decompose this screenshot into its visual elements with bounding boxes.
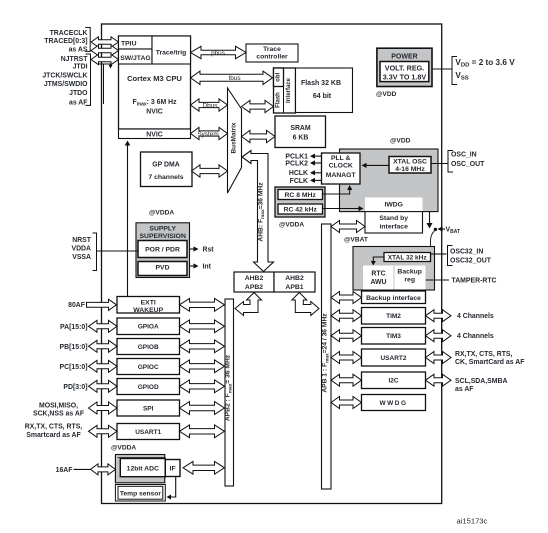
- flash memory box: [296, 68, 353, 113]
- svg-text:PA[15:0]: PA[15:0]: [60, 324, 87, 331]
- svg-text:pbus: pbus: [211, 50, 225, 57]
- rc42 wire to iwdg: [322, 208, 362, 210]
- svg-text:controller: controller: [256, 54, 288, 61]
- left jtag arrow 3: [91, 54, 119, 64]
- rc8 wire to pll: [322, 187, 350, 195]
- switch node dot: [434, 228, 437, 231]
- svg-text:IWDG: IWDG: [384, 201, 403, 208]
- backup registers box: [395, 266, 426, 290]
- POWER block: [377, 48, 432, 86]
- svg-text:RC 42 kHz: RC 42 kHz: [284, 207, 318, 214]
- svg-text:VBAT: VBAT: [446, 227, 461, 236]
- if to temp wire: [168, 477, 176, 498]
- svg-text:obl: obl: [275, 72, 281, 81]
- svg-text:4 Channels: 4 Channels: [457, 333, 494, 340]
- backup interface arrow: [331, 292, 362, 304]
- outer frame: [102, 24, 442, 504]
- svg-text:RTC: RTC: [371, 271, 385, 278]
- XTAL OSC box: [389, 157, 431, 174]
- Dbus arrow: [191, 99, 228, 111]
- wwdg left arrow: [331, 397, 362, 409]
- NVIC strip: [119, 129, 191, 139]
- svg-text:Flash: Flash: [275, 92, 281, 108]
- svg-text:reg: reg: [404, 277, 415, 284]
- svg-text:CK, SmartCard as AF: CK, SmartCard as AF: [455, 359, 524, 366]
- 12bit ADC box: [120, 459, 165, 477]
- svg-text:System: System: [197, 131, 218, 138]
- svg-text:OSC_OUT: OSC_OUT: [451, 161, 485, 168]
- gpioa left arrow: [89, 320, 118, 332]
- svg-text:GPIOC: GPIOC: [138, 364, 159, 371]
- svg-text:RX,TX, CTS, RTS,: RX,TX, CTS, RTS,: [455, 351, 513, 358]
- left jtag arrow 1: [91, 37, 119, 47]
- svg-text:VOLT. REG.: VOLT. REG.: [385, 64, 424, 73]
- Ibus arrow: [191, 71, 273, 84]
- RC oscillators container: [275, 187, 325, 217]
- exti to nvic wire: [127, 144, 129, 297]
- svg-text:PB[15:0]: PB[15:0]: [60, 344, 88, 351]
- gpioc left arrow: [89, 360, 118, 372]
- svg-text:Cortex M3 CPU: Cortex M3 CPU: [127, 74, 182, 83]
- svg-text:OSC32_IN: OSC32_IN: [450, 249, 483, 256]
- svg-text:JTDO: JTDO: [69, 90, 88, 97]
- SW/JTAG box: [119, 49, 153, 64]
- APB2 bus box: [225, 299, 234, 486]
- BusMatrix polygon: [228, 88, 242, 193]
- svg-text:Int: Int: [203, 264, 212, 271]
- svg-text:OSC_IN: OSC_IN: [451, 152, 477, 159]
- svg-text:as AS: as AS: [69, 46, 88, 53]
- svg-text:TIM3: TIM3: [386, 333, 401, 340]
- tamper wire: [426, 279, 450, 281]
- i2c left arrow: [331, 374, 362, 386]
- svg-text:PVD: PVD: [156, 265, 170, 272]
- svg-text:VSSA: VSSA: [72, 254, 91, 261]
- svg-text:64 bit: 64 bit: [313, 93, 332, 100]
- svg-text:FCLK: FCLK: [290, 178, 308, 185]
- svg-text:12bit ADC: 12bit ADC: [127, 465, 159, 472]
- svg-text:TPIU: TPIU: [121, 41, 137, 48]
- svg-text:Trace: Trace: [263, 46, 281, 53]
- VBAT wire: [439, 228, 446, 230]
- svg-text:SUPERVISION: SUPERVISION: [140, 233, 186, 240]
- RTC AWU box: [363, 266, 394, 290]
- APB1 bus box: [322, 224, 332, 489]
- usart1 left arrow: [89, 425, 118, 437]
- flash interface box: [274, 68, 296, 113]
- svg-text:AWU: AWU: [370, 279, 386, 286]
- jtag stub wire: [99, 64, 111, 66]
- svg-text:16AF: 16AF: [56, 467, 73, 474]
- backup domain gray block: [353, 247, 435, 291]
- svg-text:GPIOA: GPIOA: [138, 324, 159, 331]
- backup interface box: [362, 291, 426, 304]
- Int wire: [190, 265, 198, 267]
- USART2 box: [362, 349, 426, 366]
- svg-text:APB2: APB2: [245, 284, 263, 291]
- svg-text:SW/JTAG: SW/JTAG: [120, 55, 150, 62]
- WWDG box: [362, 395, 426, 411]
- svg-text:XTAL 32 kHz: XTAL 32 kHz: [388, 254, 428, 261]
- svg-text:Temp sensor: Temp sensor: [120, 490, 162, 497]
- svg-text:MANAGT: MANAGT: [326, 172, 357, 179]
- svg-text:GPIOD: GPIOD: [138, 384, 159, 391]
- gpiob right arrow: [180, 340, 225, 353]
- xtal osc wire to pins: [431, 163, 448, 165]
- svg-text:JTMS/SWDIO: JTMS/SWDIO: [44, 81, 88, 88]
- svg-text:Interface: Interface: [286, 77, 292, 103]
- PLL clock managt box: [322, 153, 361, 184]
- svg-text:Backup interface: Backup interface: [366, 295, 421, 302]
- svg-text:OSC32_OUT: OSC32_OUT: [450, 258, 492, 265]
- voltage regulator box: [380, 62, 429, 82]
- svg-text:4-16 MHz: 4-16 MHz: [395, 166, 425, 173]
- clock control gray block: [340, 149, 439, 212]
- SRAM box: [275, 116, 326, 148]
- 16af arrow: [91, 464, 116, 475]
- EXTI WAKEUP box: [117, 297, 180, 314]
- USART1 box: [117, 424, 180, 440]
- svg-text:TAMPER-RTC: TAMPER-RTC: [452, 278, 497, 285]
- svg-text:HCLK: HCLK: [289, 170, 308, 177]
- GPIOA box: [117, 318, 180, 335]
- AHB bus fat arrow: [242, 151, 274, 272]
- svg-text:Stand by: Stand by: [379, 215, 408, 222]
- gpioc right arrow: [180, 360, 225, 373]
- svg-text:AHB2: AHB2: [285, 275, 304, 282]
- spi right arrow: [180, 402, 225, 415]
- gpiob left arrow: [89, 340, 118, 352]
- RC 8 MHz box: [278, 190, 323, 200]
- svg-text:USART1: USART1: [135, 429, 161, 436]
- svg-text:@VDDA: @VDDA: [111, 445, 136, 452]
- svg-text:NVIC: NVIC: [146, 131, 162, 138]
- 80AF arrow: [87, 299, 117, 310]
- apb2 elbow arrow: [235, 293, 262, 316]
- TPIU box: [119, 36, 153, 49]
- svg-text:80AF: 80AF: [68, 302, 85, 309]
- svg-text:@VDD: @VDD: [390, 138, 411, 145]
- svg-text:@VDDA: @VDDA: [279, 222, 304, 229]
- svg-text:MOSI,MISO,: MOSI,MISO,: [39, 402, 78, 409]
- xtal32 to rtc wire: [373, 257, 384, 263]
- IWDG box: [365, 198, 423, 212]
- svg-text:PCLK1: PCLK1: [285, 153, 308, 160]
- svg-text:PLL &: PLL &: [331, 155, 351, 162]
- GPIOD box: [117, 379, 180, 395]
- SPI box: [117, 400, 180, 416]
- svg-text:SCL,SDA,SMBA: SCL,SDA,SMBA: [455, 378, 507, 385]
- Trace/trig box: [152, 36, 191, 64]
- spi left arrow: [89, 402, 118, 414]
- xtal to pll wire: [363, 164, 389, 166]
- svg-text:IF: IF: [170, 465, 176, 472]
- trace controller box: [246, 44, 298, 62]
- svg-text:Trace/trig: Trace/trig: [156, 50, 187, 57]
- usart2 left arrow: [331, 352, 362, 364]
- svg-text:as AF: as AF: [69, 100, 88, 107]
- svg-text:WWDG: WWDG: [379, 400, 407, 407]
- svg-text:@VDD: @VDD: [376, 91, 397, 98]
- tim3 left arrow: [331, 330, 362, 342]
- NRST wire: [97, 250, 139, 252]
- trace bracket: [85, 28, 90, 52]
- svg-text:GPIOB: GPIOB: [138, 344, 159, 351]
- Rst wire: [190, 248, 198, 250]
- svg-text:as AF: as AF: [455, 386, 474, 393]
- temp sensor box: [118, 486, 163, 499]
- svg-text:@VBAT: @VBAT: [344, 237, 368, 244]
- svg-text:4 Channels: 4 Channels: [457, 313, 494, 320]
- dma arrow: [192, 165, 228, 177]
- CPU block Cortex M3: [119, 36, 191, 129]
- xtal32 wire to pins: [431, 253, 447, 255]
- usart1 right arrow: [180, 425, 225, 438]
- svg-text:SPI: SPI: [143, 405, 154, 412]
- svg-text:6 KB: 6 KB: [293, 134, 309, 141]
- flash arrow: [242, 100, 274, 112]
- adc right arrow: [183, 461, 225, 474]
- svg-text:Ibus: Ibus: [228, 75, 240, 82]
- svg-text:RC 8 MHz: RC 8 MHz: [285, 192, 317, 199]
- pbus arrow: [191, 46, 247, 58]
- svg-text:Flash 32 KB: Flash 32 KB: [301, 80, 341, 87]
- exti right arrow: [180, 298, 225, 311]
- GPIOB box: [117, 339, 180, 355]
- supply supervision block: [136, 223, 190, 278]
- svg-text:VDDA: VDDA: [71, 245, 91, 252]
- svg-text:WAKEUP: WAKEUP: [133, 307, 163, 314]
- svg-text:BusMatrix: BusMatrix: [231, 122, 238, 153]
- sram arrow: [242, 130, 276, 142]
- svg-text:NRST: NRST: [72, 237, 92, 244]
- apb1 standby arrow: [331, 221, 365, 233]
- njtrst bracket: [86, 54, 91, 105]
- OSC bracket: [448, 151, 453, 173]
- svg-text:RX,TX, CTS, RTS,: RX,TX, CTS, RTS,: [25, 424, 83, 431]
- standby interface box: [365, 212, 423, 233]
- svg-text:SRAM: SRAM: [290, 125, 311, 132]
- TIM3 box: [362, 328, 426, 345]
- svg-text:I2C: I2C: [388, 378, 398, 385]
- obl box: [274, 68, 284, 87]
- usart2 right arrow: [426, 352, 452, 364]
- svg-text:interface: interface: [380, 223, 409, 230]
- svg-text:ai15173c: ai15173c: [457, 517, 488, 526]
- svg-text:POWER: POWER: [391, 54, 417, 61]
- svg-text:Smartcard as AF: Smartcard as AF: [26, 432, 81, 439]
- TIM2 box: [362, 308, 426, 325]
- i2c right arrow: [426, 374, 452, 386]
- clock output wires: [311, 155, 322, 157]
- AHB2 APB1 bridge box: [274, 272, 315, 292]
- svg-text:SUPPLY: SUPPLY: [149, 225, 176, 232]
- tim2 right arrow: [426, 310, 452, 322]
- svg-text:NJTRST: NJTRST: [61, 56, 89, 63]
- left jtag arrow 2: [91, 45, 119, 55]
- VDD VSS bracket: [452, 57, 457, 85]
- svg-text:APB1: APB1: [285, 284, 303, 291]
- svg-text:AHB2: AHB2: [245, 275, 264, 282]
- svg-text:TRACECLK: TRACECLK: [50, 30, 88, 37]
- nrst bracket: [93, 233, 97, 271]
- switch arm wire: [431, 231, 435, 247]
- gpiod left arrow: [89, 380, 118, 392]
- OSC32 bracket: [448, 246, 453, 266]
- tim3 right arrow: [426, 330, 452, 342]
- gpioa right arrow: [180, 320, 225, 333]
- svg-text:Dbus: Dbus: [203, 102, 218, 109]
- tim2 left arrow: [331, 310, 362, 322]
- IF box: [165, 460, 180, 477]
- svg-text:SCK,NSS as AF: SCK,NSS as AF: [33, 411, 84, 418]
- vreg wire to VDD pin: [432, 68, 452, 70]
- GPIOC box: [117, 359, 180, 375]
- I2C box: [362, 372, 426, 389]
- System arrow: [191, 127, 228, 139]
- svg-text:@VDDA: @VDDA: [149, 210, 174, 217]
- GP DMA box: [141, 152, 193, 187]
- svg-text:PC[15:0]: PC[15:0]: [60, 364, 88, 371]
- gpiod right arrow: [180, 380, 225, 393]
- POR PDR box: [138, 241, 187, 258]
- svg-text:Backup: Backup: [397, 269, 422, 276]
- PVD box: [138, 262, 187, 276]
- svg-text:PD[3:0]: PD[3:0]: [63, 384, 87, 391]
- svg-text:POR / PDR: POR / PDR: [145, 247, 180, 254]
- svg-text:VDD = 2 to 3.6 V: VDD = 2 to 3.6 V: [455, 58, 515, 69]
- svg-text:Rst: Rst: [203, 247, 215, 254]
- 16af wire: [74, 468, 91, 470]
- RC 42 kHz box: [278, 204, 323, 214]
- ADC gray container: [115, 455, 164, 483]
- svg-text:VSS: VSS: [455, 71, 468, 82]
- svg-text:XTAL OSC: XTAL OSC: [393, 158, 427, 165]
- svg-text:JTDI: JTDI: [73, 64, 88, 71]
- svg-text:EXTI: EXTI: [141, 300, 156, 307]
- AHB2 APB2 bridge box: [234, 272, 274, 292]
- svg-text:7 channels: 7 channels: [148, 174, 183, 181]
- svg-text:CLOCK: CLOCK: [329, 162, 353, 169]
- svg-text:PCLK2: PCLK2: [285, 161, 308, 168]
- svg-text:JTCK/SWCLK: JTCK/SWCLK: [42, 73, 87, 80]
- svg-text:GP DMA: GP DMA: [152, 161, 179, 168]
- apb1 elbow arrow: [292, 293, 319, 316]
- XTAL 32 kHz box: [384, 253, 431, 262]
- vdd switch arrow: [429, 212, 431, 225]
- temp sensor outer box: [115, 485, 165, 502]
- svg-text:USART2: USART2: [380, 355, 406, 362]
- svg-text:3.3V TO 1.8V: 3.3V TO 1.8V: [383, 72, 427, 81]
- svg-text:TRACED[0:3]: TRACED[0:3]: [44, 38, 87, 45]
- svg-text:TIM2: TIM2: [386, 313, 401, 320]
- svg-text:NVIC: NVIC: [146, 109, 162, 116]
